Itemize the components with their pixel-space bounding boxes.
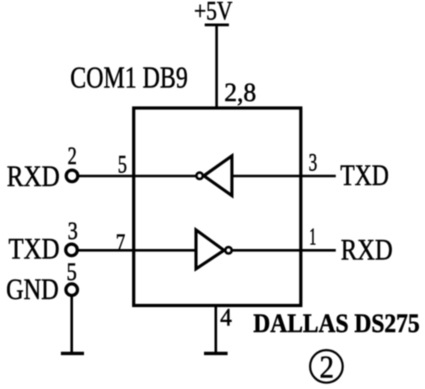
wire RXD to inverter U1a: [72, 175, 196, 178]
ground (U1 pin 4): [204, 352, 228, 355]
svg-text:2: 2: [320, 349, 335, 385]
terminal TXD (DB9 pin 3): [66, 244, 78, 256]
ground (DB9 GND): [61, 352, 84, 355]
svg-text:7: 7: [116, 230, 126, 257]
svg-text:2: 2: [68, 143, 77, 170]
wire +5V to U1 pin 2,8: [215, 25, 218, 107]
terminal GND (DB9 pin 5): [66, 284, 78, 296]
wire GND to ground: [70, 290, 73, 354]
IC U1 body DALLAS DS275: [134, 108, 301, 306]
svg-text:COM1 DB9: COM1 DB9: [70, 60, 188, 95]
svg-text:1: 1: [309, 225, 316, 251]
svg-text:GND: GND: [6, 273, 59, 306]
svg-text:3: 3: [309, 149, 318, 176]
svg-text:DALLAS DS275: DALLAS DS275: [253, 309, 419, 338]
wire U1 pin 4 to ground: [215, 306, 218, 354]
inverter U1b (TTL to RS-232, points right): [196, 230, 232, 269]
svg-text:5: 5: [67, 259, 77, 286]
figure number circle 2: [310, 349, 343, 385]
svg-text:4: 4: [220, 304, 232, 331]
svg-text:2,8: 2,8: [224, 77, 256, 107]
power rail +5V bar: [205, 23, 229, 26]
svg-text:RXD: RXD: [341, 234, 393, 267]
svg-text:3: 3: [68, 218, 78, 245]
svg-text:TXD: TXD: [340, 159, 389, 192]
terminal RXD (DB9 pin 2): [66, 170, 78, 182]
wire inverter U1a output to TXD right: [232, 175, 336, 178]
svg-text:RXD: RXD: [7, 160, 60, 193]
svg-text:+5V: +5V: [194, 0, 233, 26]
svg-text:5: 5: [118, 151, 127, 178]
wire TXD left to inverter U1b: [72, 249, 195, 252]
wire inverter U1b output to RXD right: [229, 249, 336, 252]
inverter U1a (RS-232 to TTL, points left): [196, 156, 231, 196]
svg-text:TXD: TXD: [9, 233, 60, 266]
